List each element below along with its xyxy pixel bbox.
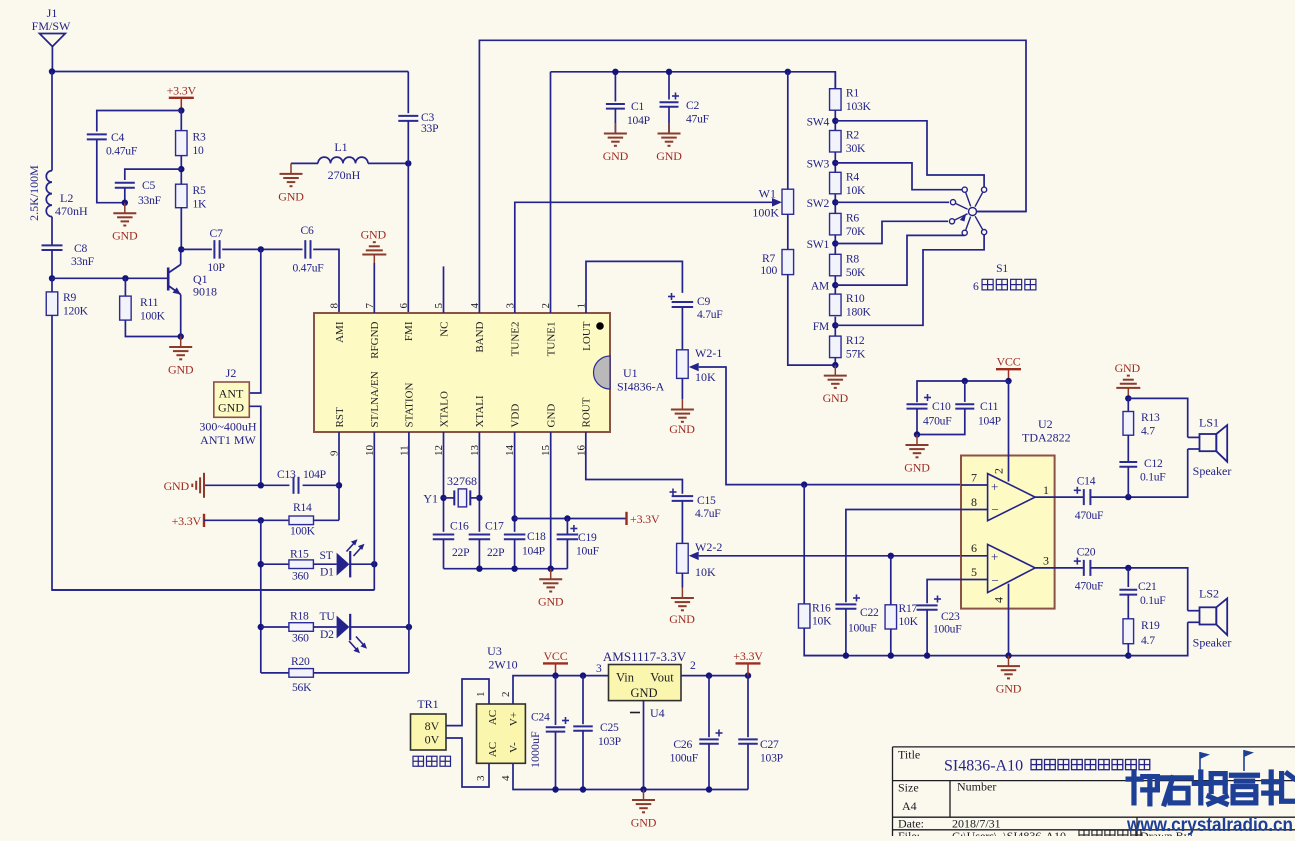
svg-text:Title: Title — [898, 748, 920, 762]
svg-text:C8: C8 — [74, 242, 87, 255]
svg-text:V+: V+ — [508, 712, 520, 726]
svg-text:SW4: SW4 — [807, 115, 830, 128]
junction node R13 top — [1125, 395, 1131, 401]
svg-text:Vin: Vin — [616, 671, 635, 685]
svg-text:FM/SW: FM/SW — [32, 19, 71, 33]
junction node D2 cathode — [406, 624, 412, 630]
junction node rail C25 — [580, 672, 586, 678]
wire C25 top lead — [582, 676, 584, 725]
ground GND below W2-1 — [671, 399, 694, 422]
junction node pin9-C13 — [336, 482, 342, 488]
wire C7-C6 node down to J2 ANT — [249, 249, 260, 393]
svg-text:VDD: VDD — [509, 404, 521, 428]
svg-text:360: 360 — [292, 570, 309, 583]
wire C13 to pin9 — [303, 484, 339, 486]
wire C4 to gnd node — [97, 140, 125, 203]
wire pin10 ST/LNA/EN down — [373, 432, 375, 590]
wire W2-2 wiper to U2 pin6 — [699, 555, 961, 557]
wire R3 top lead — [180, 111, 182, 131]
svg-text:GND: GND — [603, 149, 629, 163]
capacitor C23 100uF — [917, 605, 938, 609]
wire C15 to W2-2 — [681, 501, 683, 544]
svg-text:C24: C24 — [531, 711, 550, 724]
svg-text:50K: 50K — [846, 266, 866, 279]
watermark antenna flags — [1200, 750, 1254, 773]
svg-text:C15: C15 — [697, 494, 716, 507]
power VCC supply — [543, 649, 568, 676]
wire D2 to pin11 column — [350, 626, 409, 628]
svg-text:R8: R8 — [846, 252, 859, 265]
resistor R13 4.7 — [1123, 412, 1134, 436]
svg-text:J1: J1 — [47, 6, 58, 20]
wire rail to LS2 lower — [1128, 622, 1187, 655]
svg-text:C2: C2 — [686, 99, 699, 112]
svg-text:Size: Size — [898, 781, 919, 795]
wire base node to Q1 base — [52, 277, 168, 279]
wire C1 bottom lead — [614, 109, 616, 134]
wire pin14 VDD down — [514, 432, 516, 532]
svg-text:C1: C1 — [631, 100, 644, 113]
junction node C3-L1-FMI — [405, 160, 411, 166]
wire C27 top lead — [747, 676, 749, 738]
wire C7 to J2 node — [222, 248, 302, 250]
resistor R9 120K — [46, 291, 88, 318]
svg-text:103P: 103P — [760, 752, 783, 765]
junction node C7-C6 — [258, 246, 264, 252]
junction node gnd rail C24 — [552, 786, 558, 792]
capacitor C16 22P — [433, 535, 455, 540]
resistor R16 10K — [798, 604, 810, 628]
junction node rail C23 — [924, 652, 930, 658]
svg-text:1K: 1K — [193, 198, 208, 211]
svg-text:104P: 104P — [303, 468, 326, 481]
svg-text:100uF: 100uF — [670, 752, 699, 765]
svg-text:6: 6 — [973, 280, 979, 293]
svg-text:VCC: VCC — [996, 355, 1020, 369]
svg-text:180K: 180K — [846, 306, 872, 319]
wire ROUT pin16 to C15 — [586, 432, 683, 494]
svg-text:R14: R14 — [293, 501, 312, 514]
svg-text:SW2: SW2 — [807, 197, 830, 210]
wire L2 to C8 — [51, 217, 53, 246]
svg-text:R13: R13 — [1141, 411, 1160, 424]
wire R20 to pin11 — [313, 672, 409, 674]
wire R18 to D2 — [313, 626, 336, 628]
wire C18 bottom — [514, 539, 516, 568]
svg-text:RST: RST — [334, 407, 346, 427]
wire pin11 STATION down — [408, 432, 410, 673]
svg-text:TUNE1: TUNE1 — [545, 322, 557, 357]
svg-text:104P: 104P — [978, 415, 1001, 428]
speaker LS2 — [1188, 587, 1232, 650]
svg-text:5: 5 — [971, 565, 977, 579]
junction node rail +33 — [745, 672, 751, 678]
svg-text:100uF: 100uF — [848, 622, 877, 635]
wire C3 top lead — [407, 72, 409, 114]
svg-text:−: − — [992, 502, 999, 517]
watermark logo kuangshi shouyinji — [1128, 772, 1157, 804]
svg-text:+3.3V: +3.3V — [630, 512, 660, 526]
wire C23 bottom — [926, 610, 928, 656]
svg-text:L1: L1 — [334, 140, 347, 154]
wire R17 bottom — [890, 629, 892, 656]
svg-text:U3: U3 — [487, 644, 502, 658]
svg-text:GND: GND — [631, 816, 657, 830]
inductor L2 470nH — [27, 165, 88, 221]
svg-text:8: 8 — [329, 303, 341, 309]
U2 pin stubs and numbers — [961, 456, 1083, 609]
wire C25 bottom — [582, 731, 584, 790]
wire bridge V+ to VCC rail — [513, 676, 609, 704]
wire L1 right to C3 node — [368, 162, 408, 164]
ground GND below C10 — [904, 435, 930, 475]
capacitor C15 4.7uF — [672, 496, 694, 501]
resistor R19 4.7 — [1123, 619, 1134, 644]
wire bridge V- to gnd rail — [513, 763, 748, 789]
svg-text:33nF: 33nF — [71, 255, 95, 268]
junction node R18 left — [258, 624, 264, 630]
svg-text:GND: GND — [278, 189, 304, 203]
svg-text:GND: GND — [538, 595, 564, 609]
svg-text:C14: C14 — [1077, 475, 1096, 488]
svg-text:4: 4 — [500, 775, 512, 781]
svg-text:470uF: 470uF — [1075, 509, 1104, 522]
svg-text:XTALI: XTALI — [474, 395, 486, 427]
svg-text:C26: C26 — [673, 738, 692, 751]
svg-text:XTALO: XTALO — [438, 391, 450, 427]
svg-text:C7: C7 — [209, 227, 222, 240]
svg-text:120K: 120K — [63, 305, 89, 318]
svg-text:R5: R5 — [193, 184, 206, 197]
svg-text:100uF: 100uF — [933, 623, 962, 636]
ground GND above pin7 — [361, 228, 387, 266]
ground GND amp rail — [996, 656, 1022, 696]
resistor R3 10 — [176, 131, 206, 158]
svg-text:32768: 32768 — [447, 474, 477, 488]
wire TUNE2 pin3 to W1 wiper — [515, 202, 780, 313]
wire TR1 0V to bridge pin3 — [446, 738, 489, 787]
junction node FM — [832, 322, 838, 328]
wire L1 left to gnd — [291, 162, 318, 164]
svg-text:SW1: SW1 — [807, 238, 830, 251]
resistor R1 103K — [830, 87, 872, 114]
svg-text:470uF: 470uF — [1075, 580, 1104, 593]
capacitor C7 10P — [214, 240, 219, 259]
wire node to C5 — [125, 169, 182, 180]
svg-text:R12: R12 — [846, 334, 865, 347]
svg-text:R4: R4 — [846, 170, 859, 183]
regulator U4 AMS1117-3.3V — [603, 649, 687, 720]
wire left column down — [260, 520, 262, 673]
svg-text:100: 100 — [760, 264, 777, 277]
svg-text:AM: AM — [811, 280, 829, 293]
wire R15 left lead — [261, 563, 289, 565]
svg-text:R18: R18 — [290, 610, 309, 623]
wire C12 to output node — [1127, 467, 1129, 497]
svg-text:4.7uF: 4.7uF — [695, 507, 721, 520]
svg-text:FMI: FMI — [403, 321, 415, 341]
junction node AM — [832, 282, 838, 288]
wire R13 node to LS1 upper — [1128, 398, 1187, 437]
svg-text:1: 1 — [1043, 483, 1049, 497]
svg-text:U2: U2 — [1038, 417, 1053, 431]
svg-text:STATION: STATION — [404, 382, 416, 427]
potentiometer W1 100K — [752, 187, 793, 220]
resistor R20 56K — [289, 669, 314, 678]
svg-text:U1: U1 — [623, 366, 638, 380]
wire R16 top lead — [803, 485, 805, 604]
svg-text:33P: 33P — [421, 122, 438, 135]
svg-text:10K: 10K — [846, 184, 866, 197]
capacitor C14 470uF — [1084, 489, 1091, 505]
svg-text:GND: GND — [168, 363, 194, 377]
junction node C10 gnd — [914, 431, 920, 437]
svg-text:56K: 56K — [292, 681, 312, 694]
junction node VCC rail C24 — [552, 672, 558, 678]
svg-text:2: 2 — [500, 692, 512, 698]
svg-text:GND: GND — [630, 686, 657, 700]
svg-text:100K: 100K — [290, 525, 316, 538]
svg-text:+: + — [991, 549, 998, 564]
svg-text:D2: D2 — [320, 628, 334, 641]
junction node rail C26 — [706, 672, 712, 678]
ground GND below C1 — [603, 123, 629, 163]
resistor R17 10K — [885, 605, 897, 629]
junction node C19 top — [564, 515, 570, 521]
wire R11 bottom to emitter node — [125, 320, 180, 336]
capacitor C27 103P — [738, 739, 758, 743]
junction node C13 left — [258, 482, 264, 488]
wire W2-2 bottom to gnd — [681, 573, 683, 587]
svg-text:C18: C18 — [527, 530, 546, 543]
svg-text:C27: C27 — [760, 738, 779, 751]
wire TR1 8V to bridge pin1 — [446, 679, 489, 726]
wire resistor chain verticals — [834, 72, 836, 89]
wire R5 to collector node — [180, 208, 182, 250]
svg-text:W2-2: W2-2 — [695, 540, 722, 554]
wire FM to contact — [835, 235, 984, 326]
svg-text:AMI: AMI — [334, 321, 346, 343]
resistor R6 70K — [830, 211, 866, 238]
wire SW2 to contact — [835, 201, 949, 203]
svg-text:ST/LNA/EN: ST/LNA/EN — [369, 371, 381, 427]
junction node rail C22 — [843, 652, 849, 658]
wire C2 bottom lead — [668, 107, 670, 134]
wire C14 to LS1 — [1090, 449, 1187, 497]
switch S1 rotary 6-band — [949, 187, 1026, 235]
ground GND tap at C13 — [164, 473, 204, 498]
svg-text:104P: 104P — [522, 545, 545, 558]
svg-text:LS1: LS1 — [1199, 416, 1219, 430]
svg-text:3: 3 — [475, 775, 487, 781]
svg-text:C16: C16 — [450, 520, 469, 533]
junction node C4-C5 gnd — [122, 200, 128, 206]
connector J1 FM/SW antenna — [32, 6, 71, 72]
junction node LS1 lower — [1125, 494, 1131, 500]
speaker LS1 — [1188, 416, 1232, 479]
svg-text:4: 4 — [992, 597, 1006, 603]
wire R19 bottom to rail — [1127, 644, 1129, 656]
wire J2 GND pin down to C13 node — [249, 406, 260, 485]
wire R15 to D1 — [313, 563, 336, 565]
wire C3 to FMI node — [407, 121, 409, 163]
wire VCC down to U2 pin2 — [1008, 381, 1010, 456]
svg-text:8V: 8V — [425, 719, 440, 733]
junction antenna node — [49, 68, 55, 74]
junction node gnd rail C26 — [706, 786, 712, 792]
ground GND below C5 — [112, 203, 138, 243]
svg-text:+3.3V: +3.3V — [733, 649, 763, 663]
resistor R4 10K — [830, 170, 866, 197]
junction node rail pin4 — [1005, 652, 1011, 658]
svg-text:2: 2 — [690, 659, 696, 672]
svg-text:TU: TU — [320, 610, 336, 623]
svg-text:−: − — [992, 573, 999, 588]
capacitor C2 47uF — [660, 102, 679, 107]
svg-text:Speaker: Speaker — [1193, 636, 1232, 650]
resistor R15 360 — [289, 560, 314, 569]
wire C21 top lead — [1127, 568, 1129, 587]
svg-text:100K: 100K — [752, 206, 779, 220]
resistor R18 360 — [289, 623, 314, 632]
svg-text:4.7: 4.7 — [1141, 425, 1155, 438]
LED D2 — [337, 614, 367, 653]
wire C27 bottom — [747, 744, 749, 790]
wire R17 top lead — [890, 556, 892, 605]
svg-text:FM: FM — [813, 320, 829, 333]
wire pin10 to far left — [52, 589, 374, 591]
svg-text:C20: C20 — [1077, 546, 1096, 559]
wire VCC to C10 C11 — [917, 381, 1009, 402]
svg-text:C13: C13 — [277, 468, 296, 481]
svg-text:Number: Number — [957, 780, 996, 794]
svg-text:0.1uF: 0.1uF — [1140, 594, 1166, 607]
connector J2 ANT/GND — [199, 366, 256, 447]
svg-text:10K: 10K — [695, 370, 716, 384]
junction node SW4 — [832, 118, 838, 124]
wire C16 bottom — [443, 539, 445, 568]
capacitor C10 470uF — [907, 404, 928, 408]
wire R20 loop — [261, 672, 289, 674]
svg-text:C21: C21 — [1138, 580, 1157, 593]
junction node D1 cathode — [371, 561, 377, 567]
wire antenna down to L2 — [51, 72, 53, 171]
wire R14 to pin9 — [314, 519, 340, 521]
rectifier U3 2W10 — [475, 644, 525, 781]
svg-text:6: 6 — [971, 541, 977, 555]
op-amp U2 channel B triangle — [988, 544, 1036, 592]
junction node C11 top — [962, 378, 968, 384]
junction node R3-R5 — [178, 166, 184, 172]
svg-text:C25: C25 — [600, 721, 619, 734]
LED D1 — [337, 539, 365, 577]
svg-text:ANT1 MW: ANT1 MW — [200, 433, 256, 447]
wire U1 pin5 NC stub — [443, 266, 445, 313]
wire C11 bottom — [917, 409, 965, 435]
capacitor C26 100uF — [699, 739, 719, 743]
svg-text:J2: J2 — [226, 366, 237, 380]
ground GND power rail — [631, 790, 657, 830]
op-amp U1 SI4836-A body — [314, 313, 665, 432]
svg-text:GND: GND — [1115, 361, 1141, 375]
svg-text:22P: 22P — [487, 546, 504, 559]
junction node gnd rail C25 — [580, 786, 586, 792]
svg-text:R1: R1 — [846, 87, 859, 100]
title block frame — [893, 747, 1295, 836]
svg-text:Speaker: Speaker — [1193, 464, 1232, 478]
svg-text:+: + — [991, 479, 998, 494]
wire C24 top lead — [555, 676, 557, 725]
svg-text:SI4836-A: SI4836-A — [617, 380, 665, 394]
svg-text:22P: 22P — [452, 546, 469, 559]
svg-text:30K: 30K — [846, 142, 866, 155]
svg-text:VCC: VCC — [543, 649, 567, 663]
svg-text:2W10: 2W10 — [488, 658, 517, 672]
svg-text:3: 3 — [1043, 554, 1049, 568]
capacitor C17 22P — [469, 535, 491, 540]
wire U2 pin4 to rail — [1008, 609, 1010, 656]
wire C5 bottom lead — [124, 188, 126, 203]
svg-text:C11: C11 — [980, 400, 999, 413]
ground GND above R13 — [1115, 361, 1141, 399]
wire R7 bottom to R12 gnd node — [788, 275, 836, 366]
svg-text:R2: R2 — [846, 129, 859, 142]
svg-text:C9: C9 — [697, 295, 710, 308]
capacitor C3 33P — [398, 116, 418, 121]
svg-text:W2-1: W2-1 — [695, 346, 722, 360]
svg-text:33nF: 33nF — [138, 194, 162, 207]
wire C26 top lead — [708, 676, 710, 738]
svg-text:R17: R17 — [899, 602, 918, 615]
ground GND below crystal rail — [538, 569, 564, 609]
potentiometer W2-2 10K — [677, 540, 723, 579]
svg-text:10P: 10P — [207, 261, 224, 274]
svg-text:NC: NC — [438, 322, 450, 337]
junction node emitter — [178, 333, 184, 339]
svg-text:4.7: 4.7 — [1141, 634, 1155, 647]
junction node rail R19 — [1125, 652, 1131, 658]
transistor Q1 9018 — [168, 249, 217, 336]
capacitor C12 0.1uF — [1119, 462, 1137, 467]
file row chinese — [1079, 830, 1089, 840]
resistor R14 100K — [289, 516, 314, 525]
svg-text:Vout: Vout — [650, 671, 674, 685]
svg-text:AMS1117-3.3V: AMS1117-3.3V — [603, 649, 687, 664]
svg-text:8: 8 — [971, 495, 977, 509]
svg-text:C12: C12 — [1144, 457, 1163, 470]
op-amp U2 TDA2822 body — [961, 417, 1071, 609]
ground GND at L1 — [278, 163, 304, 203]
junction node SW3 — [832, 160, 838, 166]
svg-text:4.7uF: 4.7uF — [697, 308, 723, 321]
wire base node to R9 — [51, 278, 53, 292]
junction node SW2 — [832, 199, 838, 205]
capacitor C6 0.47uF — [305, 240, 310, 259]
svg-text:GND: GND — [996, 682, 1022, 696]
wire SW3 to contact — [835, 163, 962, 190]
wire LOUT pin1 to C9 — [586, 261, 682, 313]
capacitor C11 104P — [955, 404, 974, 408]
svg-text:RFGND: RFGND — [369, 321, 381, 358]
svg-text:1: 1 — [475, 692, 487, 698]
svg-text:70K: 70K — [846, 225, 866, 238]
capacitor C8 33nF — [42, 245, 63, 250]
svg-text:C6: C6 — [300, 224, 313, 237]
junction node LS2 upper — [1125, 565, 1131, 571]
junction node rail C18 — [511, 566, 517, 572]
wire R13 top lead — [1127, 398, 1129, 411]
svg-text:7: 7 — [971, 471, 977, 485]
